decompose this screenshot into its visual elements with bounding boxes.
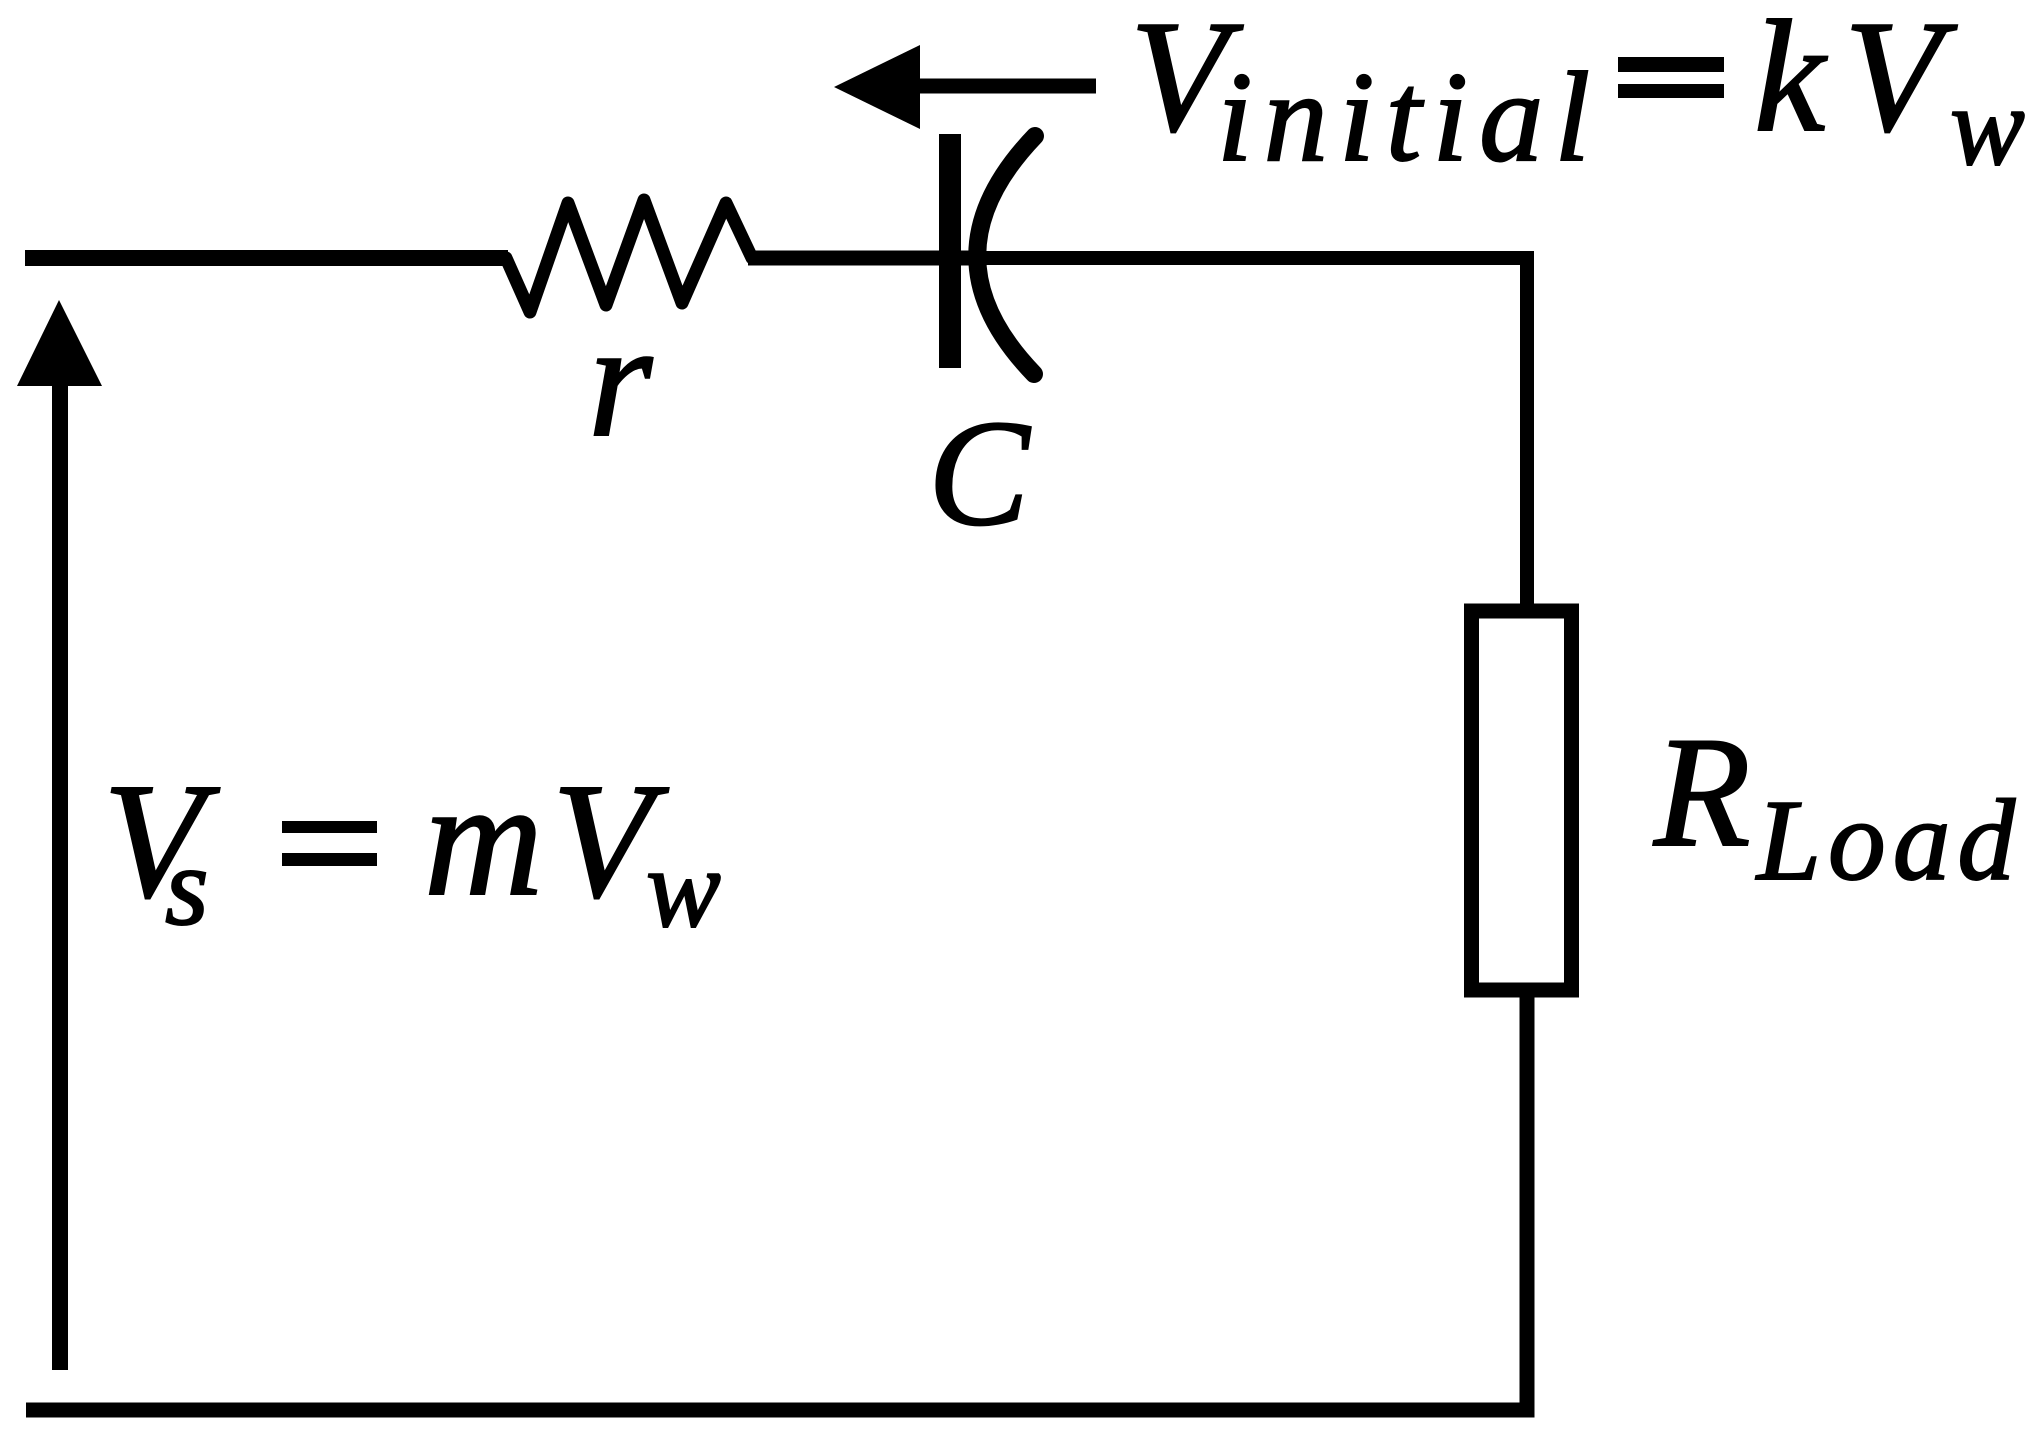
svg-text:R: R bbox=[1653, 705, 1751, 880]
svg-text:s: s bbox=[165, 825, 209, 949]
svg-text:r: r bbox=[588, 288, 653, 471]
svg-text:w: w bbox=[1950, 65, 2025, 189]
svg-text:initial: initial bbox=[1217, 46, 1590, 188]
svg-text:k: k bbox=[1754, 0, 1828, 165]
svg-text:m: m bbox=[424, 747, 543, 930]
svg-text:w: w bbox=[646, 827, 721, 951]
svg-text:V: V bbox=[1844, 0, 1958, 165]
svg-text:C: C bbox=[928, 389, 1031, 557]
svg-text:Load: Load bbox=[1755, 777, 2016, 904]
